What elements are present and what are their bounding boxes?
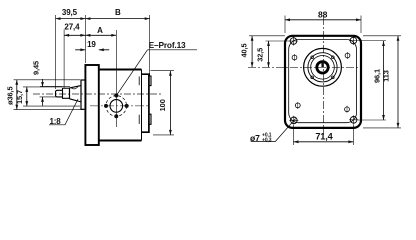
port solid circle (110, 100, 123, 113)
dim 15,7 extensions (23, 87, 80, 106)
bolt hole bottom-right (349, 115, 358, 124)
svg-text:1:8: 1:8 (49, 117, 61, 126)
rear top boss inner line (138, 77, 140, 86)
svg-text:B: B (115, 8, 121, 17)
dim 9,45 line (42, 79, 44, 106)
leader 1:8 (49, 99, 78, 125)
shaft pilot ø36,5 (81, 80, 86, 109)
shaft collar (63, 88, 70, 98)
small hole lower-right (345, 106, 350, 113)
flange inner face contour (289, 39, 357, 122)
svg-text:100: 100 (158, 99, 167, 111)
dim 100 line (169, 71, 171, 135)
dim 96,1 extensions (358, 41, 386, 121)
leader E-Prof.13 (117, 50, 198, 96)
bolt hole top-right (349, 36, 358, 45)
svg-text:27,4: 27,4 (64, 23, 80, 32)
pilot circle ø36,5 (308, 53, 337, 82)
port horizontal centerline (90, 105, 150, 107)
svg-text:40,5: 40,5 (240, 44, 249, 58)
rear bottom boss inner line (138, 115, 140, 124)
dim 9,45 extension (key top) (40, 85, 70, 87)
dim 88 extensions (285, 16, 361, 34)
dim ø36,5 extensions (14, 80, 84, 110)
small hole lower-left (295, 102, 300, 109)
dim 27,4 line (64, 34, 85, 36)
svg-text:19: 19 (87, 40, 96, 49)
pump body housing (99, 70, 142, 141)
front flange plate (85, 65, 98, 145)
dim ø36,5 line (16, 80, 18, 110)
dim 15,7 line (26, 87, 28, 106)
dim 88 line (285, 19, 361, 21)
dim 39,5/B shared extension (flange face) (84, 15, 86, 63)
small hole upper-left (292, 54, 297, 61)
svg-text:96,1: 96,1 (373, 69, 382, 83)
shaft taper 1:8 cone (70, 86, 82, 102)
horizontal centerline (248, 66, 362, 68)
shaft threaded stub (56, 90, 63, 97)
svg-text:ø36,5: ø36,5 (6, 86, 15, 104)
svg-text:71,4: 71,4 (315, 132, 333, 142)
dim 71,4 extensions (294, 125, 354, 146)
bolt hole bottom-left (ø7 leader target) (289, 116, 298, 125)
rear cover (142, 74, 149, 132)
svg-text:15,7: 15,7 (15, 90, 24, 104)
rear top boss (149, 76, 151, 86)
dim 113 extensions (363, 36, 401, 128)
dim 19 line with outside arrows (75, 49, 109, 51)
dim 40,5 line (251, 36, 253, 68)
port bolt circle dashed (106, 96, 127, 117)
front plate screws at 45 deg (311, 56, 314, 59)
dim 27,4 extension left (collar face) (63, 30, 65, 88)
svg-text:ø7: ø7 (250, 133, 260, 143)
dim B line (85, 18, 149, 20)
dim B extension right (rear boss face) (149, 15, 151, 76)
port bolt hole E (125, 104, 129, 108)
dim 39,5 extension left (shaft tip) (55, 15, 57, 89)
svg-text:113: 113 (382, 70, 391, 82)
svg-text:E–Prof.13: E–Prof.13 (149, 40, 186, 50)
shaft centerline (33, 93, 163, 95)
dim 40,5 extension (top edge) (249, 35, 285, 37)
svg-text:9,45: 9,45 (32, 61, 41, 75)
dim 100 extensions (151, 71, 175, 135)
dim 113 line (397, 36, 399, 128)
dim 71,4 line (294, 141, 354, 143)
bolt hole top-left (289, 37, 298, 46)
port bolt hole N (filled, leader target) (114, 94, 118, 98)
shaft keyway slot (321, 62, 323, 68)
svg-text:+0,3: +0,3 (262, 138, 272, 144)
shaft bore dark ring (317, 62, 328, 73)
svg-text:39,5: 39,5 (62, 8, 78, 17)
dim 32,5 extension (bolt row) (266, 40, 291, 42)
flange outer square (285, 36, 361, 128)
svg-text:32,5: 32,5 (256, 48, 265, 62)
dim 32,5 line (268, 41, 270, 67)
rear bottom boss (149, 114, 151, 124)
svg-text:A: A (97, 26, 103, 35)
svg-text:88: 88 (318, 10, 328, 20)
port bolt hole W (104, 104, 108, 108)
inner circle (311, 56, 335, 80)
vertical centerline (323, 17, 325, 135)
keyway arc on taper (71, 86, 79, 89)
leader ø7 (251, 119, 296, 142)
dim 39,5 line (56, 18, 86, 20)
boss outer circle (304, 48, 342, 86)
port vertical centerline / A extension (115, 30, 117, 127)
port bolt hole S (114, 114, 118, 118)
dim A line (85, 34, 116, 36)
housing/cover joint line (141, 70, 143, 141)
dim 96,1 line (383, 41, 385, 120)
small hole upper-right (345, 52, 350, 59)
